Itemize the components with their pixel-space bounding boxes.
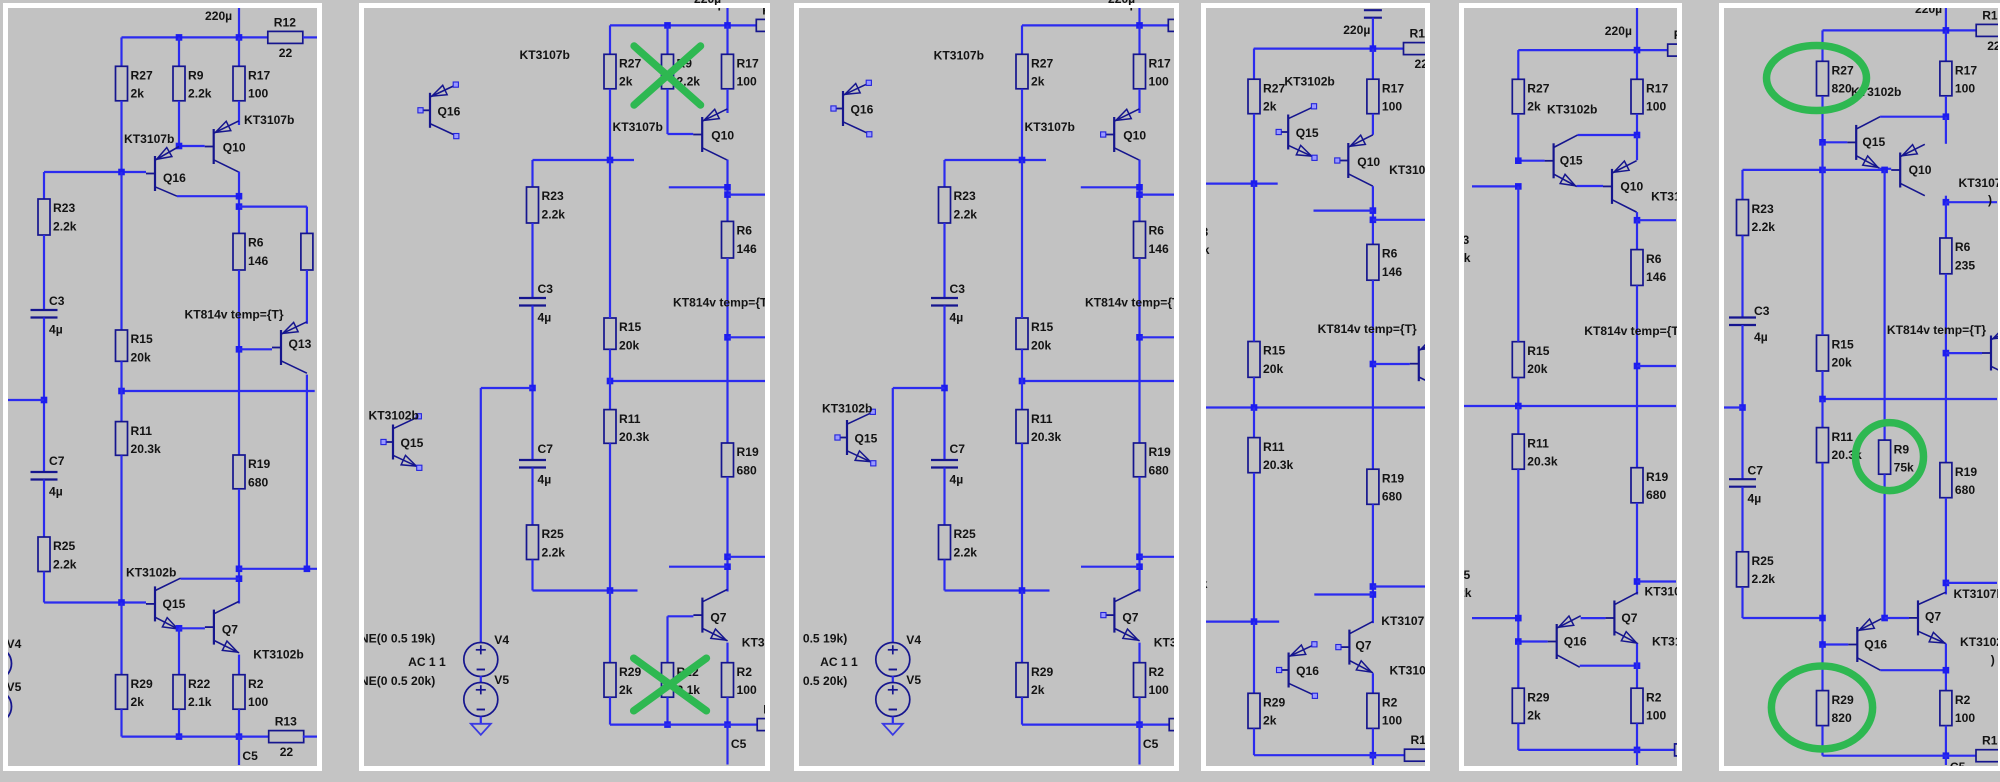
label C1 value 220µ <box>205 9 232 23</box>
svg-text:C7: C7 <box>49 454 65 468</box>
wire <box>1517 723 1519 750</box>
transistor Q10 <box>1603 161 1644 212</box>
wire <box>1021 160 1023 318</box>
voltage source V5 <box>463 673 509 717</box>
resistor R15 <box>1512 342 1549 378</box>
junction <box>724 191 731 198</box>
wire <box>1823 755 1977 757</box>
svg-text:V4: V4 <box>8 637 22 651</box>
wire <box>120 603 122 675</box>
resistor R23 <box>1737 200 1776 236</box>
svg-text:C5: C5 <box>1950 760 1966 766</box>
label Q15 type KT3102b <box>1547 102 1597 116</box>
svg-text:100: 100 <box>1382 714 1402 728</box>
label C4 (cut) <box>1356 0 1372 10</box>
resistor R9 <box>661 54 700 89</box>
svg-text:R6: R6 <box>248 236 264 250</box>
resistor R11 <box>604 410 650 444</box>
label Q7 type <box>1381 614 1431 628</box>
svg-text:R2: R2 <box>1382 696 1398 710</box>
svg-text:22: 22 <box>1987 764 1998 766</box>
wire <box>1206 406 1425 408</box>
ground <box>883 724 903 735</box>
wire <box>727 194 765 196</box>
wire <box>531 560 533 591</box>
wire <box>1945 30 1947 61</box>
label Q10 type (cut) <box>1959 176 2000 190</box>
wire <box>1880 669 1946 671</box>
wire <box>178 101 180 146</box>
resistor R19 <box>1367 469 1404 504</box>
wire <box>238 37 240 66</box>
svg-text:V5: V5 <box>494 673 509 687</box>
junction <box>1943 199 1950 206</box>
svg-text:C3: C3 <box>950 282 966 296</box>
wire <box>726 89 728 109</box>
ground <box>470 724 490 735</box>
svg-text:KT3107b: KT3107b <box>1025 120 1075 134</box>
svg-text:2k: 2k <box>1031 75 1045 89</box>
svg-text:146: 146 <box>1382 265 1402 279</box>
svg-text:R11: R11 <box>1832 430 1854 444</box>
junction <box>1019 157 1026 164</box>
wire <box>1743 169 1823 171</box>
wire <box>239 568 318 570</box>
svg-text:KT3107b: KT3107b <box>519 48 569 62</box>
wire <box>1823 141 1848 143</box>
svg-text:680: 680 <box>248 475 268 489</box>
transistor Q10 <box>1891 144 1932 195</box>
transistor Q15 (floating) <box>835 409 878 466</box>
svg-text:KT3102b: KT3102b <box>822 401 872 415</box>
svg-text:R19: R19 <box>1382 471 1404 485</box>
junction <box>41 397 48 404</box>
wire <box>726 643 728 663</box>
label Q10 type KT3107b <box>244 113 294 127</box>
svg-text:R12: R12 <box>274 15 296 29</box>
wire <box>1636 750 1638 765</box>
wire <box>726 160 728 222</box>
junction <box>1943 580 1950 587</box>
capacitor C7 <box>931 442 965 487</box>
svg-text:2k: 2k <box>1263 100 1277 114</box>
wire <box>943 306 945 461</box>
junction <box>1634 578 1641 585</box>
label Q16 type (cut) <box>1652 635 1702 649</box>
svg-text:KT3107b: KT3107b <box>1954 587 1999 601</box>
svg-text:KT3107b: KT3107b <box>1381 614 1425 628</box>
svg-text:SINE(0 0.5 20k): SINE(0 0.5 20k) <box>799 674 847 688</box>
svg-text:R11: R11 <box>131 424 153 438</box>
svg-text:Q10: Q10 <box>1620 180 1643 194</box>
svg-text:Q16: Q16 <box>1864 638 1887 652</box>
junction <box>724 563 731 570</box>
svg-text:C7: C7 <box>1748 464 1764 478</box>
svg-text:20.3k: 20.3k <box>1031 430 1062 444</box>
wire <box>667 133 693 135</box>
resistor R19 <box>1631 468 1668 503</box>
label R23 value (cut) <box>1447 251 1471 265</box>
resistor R19 <box>1940 463 1977 498</box>
resistor R25 <box>526 525 565 560</box>
label Q13 type KT814v <box>1318 322 1417 336</box>
svg-text:220µ: 220µ <box>1605 24 1632 38</box>
wire <box>726 258 728 443</box>
wire <box>238 737 240 765</box>
svg-text:20k: 20k <box>131 350 151 364</box>
svg-text:V4: V4 <box>494 633 509 647</box>
wire <box>1021 349 1023 381</box>
junction <box>1251 404 1258 411</box>
svg-text:R15: R15 <box>1832 337 1854 351</box>
capacitor C7 <box>1729 464 1763 506</box>
capacitor C7 <box>519 442 553 487</box>
resistor R27 <box>1512 79 1549 114</box>
voltage source V4 <box>463 633 509 677</box>
wire <box>608 25 610 54</box>
wire <box>1945 274 1947 463</box>
svg-text:20.3k: 20.3k <box>1527 455 1558 469</box>
svg-text:R19: R19 <box>1646 470 1668 484</box>
wire <box>1823 398 1998 400</box>
label fragments in margin (cut R25/2.2k) <box>1193 551 1202 593</box>
wire <box>666 616 668 662</box>
junction <box>941 385 948 392</box>
svg-text:SINE(0 0.5 20k): SINE(0 0.5 20k) <box>364 674 435 688</box>
wire <box>1821 96 1823 142</box>
svg-text:680: 680 <box>1955 483 1975 497</box>
label Q15 type KT3102b <box>126 566 176 580</box>
label Q16 type (cut) <box>1960 635 2000 649</box>
svg-text:R23: R23 <box>954 189 976 203</box>
wire <box>1372 504 1374 623</box>
svg-text:100: 100 <box>1382 100 1402 114</box>
svg-text:R25: R25 <box>954 527 976 541</box>
resistor R12 <box>1168 3 1203 48</box>
svg-text:2.2k: 2.2k <box>954 207 978 221</box>
wire <box>1253 622 1255 694</box>
resistor R13 <box>757 703 792 748</box>
svg-text:R12: R12 <box>1410 27 1426 41</box>
junction <box>1634 217 1641 224</box>
svg-text:R23: R23 <box>1752 202 1774 216</box>
label KT3102b <box>822 401 872 415</box>
svg-text:Q7: Q7 <box>1122 611 1138 625</box>
label R25 (cut) <box>1448 568 1470 582</box>
wire <box>479 717 481 724</box>
svg-text:KT3107b: KT3107b <box>934 49 984 63</box>
wire <box>120 455 122 602</box>
junction <box>176 625 183 632</box>
svg-text:2.2k: 2.2k <box>1752 220 1776 234</box>
wire <box>1637 365 1676 367</box>
junction <box>1370 591 1377 598</box>
wire <box>1741 170 1743 200</box>
voltage source V5 (cut) <box>0 680 22 723</box>
wire <box>178 709 180 736</box>
wire <box>608 591 610 663</box>
resistor R2 <box>1134 663 1169 698</box>
resistor R15 <box>1248 342 1285 378</box>
junction <box>1943 350 1950 357</box>
wire <box>1577 185 1603 187</box>
wire <box>1636 644 1638 689</box>
wire <box>726 477 728 592</box>
wire <box>1517 469 1519 641</box>
wire <box>1945 96 1947 119</box>
resistor R15 <box>1016 318 1053 352</box>
wire <box>1517 642 1519 689</box>
wire <box>1372 49 1374 80</box>
svg-text:KT3107b: KT3107b <box>612 120 662 134</box>
svg-text:R23: R23 <box>1206 225 1208 239</box>
label Q13 type KT814v <box>1887 323 1986 337</box>
wire <box>1021 443 1023 590</box>
junction <box>1819 641 1826 648</box>
resistor R27 <box>1016 54 1053 89</box>
junction <box>176 733 183 740</box>
svg-text:R11: R11 <box>1263 440 1285 454</box>
svg-text:C7: C7 <box>950 442 966 456</box>
transistor Q15 <box>146 578 186 629</box>
wire <box>892 717 894 724</box>
capacitor C3 <box>1729 304 1770 344</box>
wire <box>1206 183 1278 185</box>
junction <box>1881 615 1888 622</box>
transistor Q7 <box>205 601 239 652</box>
svg-text:100: 100 <box>248 87 268 101</box>
svg-text:22: 22 <box>280 745 294 759</box>
svg-text:820: 820 <box>1832 82 1852 96</box>
wire <box>120 361 122 391</box>
wire <box>1472 185 1518 187</box>
svg-text:KT3102b: KT3102b <box>1390 664 1426 678</box>
label fragment 220u above panel 2 <box>694 0 724 5</box>
junction <box>724 334 731 341</box>
svg-text:680: 680 <box>1646 488 1666 502</box>
svg-text:R27: R27 <box>1263 81 1285 95</box>
wire <box>178 628 180 674</box>
wire <box>44 171 146 173</box>
wire <box>1138 258 1140 443</box>
wire <box>1021 89 1023 160</box>
wire <box>238 270 240 455</box>
wire <box>608 160 610 318</box>
svg-text:C7: C7 <box>537 442 553 456</box>
svg-text:R15: R15 <box>1527 344 1549 358</box>
junction <box>1634 662 1641 669</box>
svg-text:R27: R27 <box>131 69 153 83</box>
svg-text:2k: 2k <box>131 87 145 101</box>
svg-text:KT3107b: KT3107b <box>1389 163 1425 177</box>
svg-text:C3: C3 <box>537 282 553 296</box>
svg-text:20.3k: 20.3k <box>131 442 162 456</box>
svg-text:KT3107b: KT3107b <box>1645 585 1678 599</box>
svg-text:C3: C3 <box>1754 304 1770 318</box>
svg-text:R12: R12 <box>762 8 765 17</box>
resistor R27 <box>604 54 641 89</box>
resistor R12 <box>1404 27 1439 72</box>
wire <box>1880 116 1946 118</box>
transistor Q16 <box>146 147 186 197</box>
svg-text:KT3107b: KT3107b <box>1651 190 1677 204</box>
label fragment <box>1988 193 1992 207</box>
svg-text:R6: R6 <box>1646 252 1662 266</box>
svg-text:R19: R19 <box>1149 445 1171 459</box>
wire <box>608 443 610 590</box>
wire <box>1945 498 1947 595</box>
wire <box>1636 50 1638 79</box>
schematic panel 3 <box>794 3 1179 771</box>
wire <box>239 206 307 208</box>
svg-text:4µ: 4µ <box>537 311 551 325</box>
svg-text:R17: R17 <box>248 69 270 83</box>
wire <box>943 560 945 591</box>
label Q10 type (cut) <box>1651 190 1701 204</box>
wire <box>608 381 610 410</box>
svg-text:R25: R25 <box>1752 554 1774 568</box>
junction <box>1515 615 1522 622</box>
svg-text:SINE(0 0.5 19k): SINE(0 0.5 19k) <box>799 632 847 646</box>
junction <box>236 203 243 210</box>
wire <box>8 399 44 401</box>
label Q10 type <box>1389 163 1439 177</box>
wire <box>1741 325 1743 479</box>
wire <box>43 318 45 473</box>
resistor R15 <box>1817 335 1854 371</box>
wire <box>943 160 945 187</box>
svg-text:146: 146 <box>1646 270 1666 284</box>
svg-text:R29: R29 <box>1527 690 1549 704</box>
junction <box>1515 157 1522 164</box>
junction <box>606 378 613 385</box>
svg-text:R11: R11 <box>1527 436 1549 450</box>
label V4 SINE <box>348 632 435 646</box>
resistor R11 <box>1248 438 1294 473</box>
wire <box>1741 235 1743 317</box>
svg-text:Q16: Q16 <box>851 103 874 117</box>
svg-text:SINE(0 0.5 19k): SINE(0 0.5 19k) <box>364 632 435 646</box>
resistor R13 <box>269 715 304 760</box>
resistor R23 <box>939 187 978 223</box>
wire <box>179 145 205 147</box>
junction <box>1370 752 1377 759</box>
svg-text:4µ: 4µ <box>537 473 551 487</box>
svg-text:20k: 20k <box>1832 356 1852 370</box>
label C5 (cut) <box>1950 760 1966 774</box>
resistor R19 <box>721 443 758 477</box>
junction <box>1739 404 1746 411</box>
svg-text:AC 1 1: AC 1 1 <box>820 655 858 669</box>
svg-text:22: 22 <box>1987 39 1998 53</box>
resistor R25 <box>38 537 77 572</box>
svg-text:KT3107b: KT3107b <box>1959 176 1999 190</box>
wire <box>945 589 1050 591</box>
wire <box>1253 728 1255 755</box>
junction <box>1819 167 1826 174</box>
junction <box>176 143 183 150</box>
svg-text:22: 22 <box>279 46 293 60</box>
wire <box>610 723 757 725</box>
transistor Q7 <box>1336 621 1373 672</box>
label C1 value (cut) <box>1915 2 1942 16</box>
resistor R25 <box>939 525 978 560</box>
svg-text:R25: R25 <box>53 539 75 553</box>
wire <box>1314 593 1373 595</box>
junction <box>1634 363 1641 370</box>
wire <box>1821 399 1823 428</box>
wire <box>1372 280 1374 469</box>
wire <box>238 489 240 604</box>
wire <box>1946 201 1997 203</box>
wire <box>893 387 945 389</box>
wire <box>1885 617 1909 619</box>
resistor R2 <box>721 663 756 698</box>
svg-text:R6: R6 <box>1382 247 1398 261</box>
wire <box>1021 25 1023 54</box>
svg-text:KT3102b: KT3102b <box>1284 75 1334 89</box>
svg-text:R17: R17 <box>1955 64 1977 78</box>
resistor R9 <box>1879 440 1914 474</box>
resistor R17 <box>1134 54 1171 89</box>
svg-text:2.2k: 2.2k <box>1206 243 1210 257</box>
junction <box>1370 45 1377 52</box>
svg-text:Q7: Q7 <box>222 623 238 637</box>
wire <box>1578 134 1638 136</box>
svg-text:Q10: Q10 <box>223 141 246 155</box>
wire <box>1879 168 1891 170</box>
svg-text:R27: R27 <box>619 57 641 71</box>
wire <box>1517 114 1519 161</box>
svg-text:Q15: Q15 <box>1862 135 1885 149</box>
svg-text:R19: R19 <box>1955 465 1977 479</box>
wire <box>1883 170 1885 440</box>
svg-text:Q15: Q15 <box>163 597 186 611</box>
wire <box>43 172 45 199</box>
svg-text:100: 100 <box>1646 100 1666 114</box>
label fragment 220u above panel 3 <box>1108 0 1138 5</box>
junction <box>664 22 671 29</box>
svg-text:KT3102b: KT3102b <box>126 566 176 580</box>
svg-text:100: 100 <box>1149 683 1169 697</box>
wire <box>1373 363 1410 365</box>
svg-text:R13: R13 <box>275 715 297 729</box>
wire <box>943 468 945 526</box>
wire <box>178 37 180 66</box>
svg-text:20k: 20k <box>619 338 639 352</box>
svg-text:75k: 75k <box>1894 461 1914 475</box>
svg-text:R17: R17 <box>1382 81 1404 95</box>
wire <box>1464 405 1676 407</box>
svg-text:C5: C5 <box>1143 737 1159 751</box>
wire <box>943 223 945 298</box>
wire <box>666 89 668 134</box>
svg-text:KT814v temp={T}: KT814v temp={T} <box>185 308 284 322</box>
label V4 AC <box>820 655 858 669</box>
junction <box>606 157 613 164</box>
junction <box>724 554 731 561</box>
svg-text:V4: V4 <box>906 633 921 647</box>
wire <box>303 36 318 38</box>
wire <box>1253 473 1255 622</box>
svg-text:R23: R23 <box>53 201 75 215</box>
svg-text:680: 680 <box>1149 463 1169 477</box>
wire <box>1472 617 1518 619</box>
wire <box>727 556 765 558</box>
junction <box>176 34 183 41</box>
svg-text:R13: R13 <box>1411 733 1426 747</box>
wire <box>238 172 240 234</box>
